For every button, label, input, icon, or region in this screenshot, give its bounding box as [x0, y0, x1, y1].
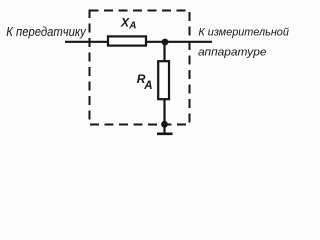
dashed enclosure box: [90, 11, 190, 125]
node (junction dot): [162, 39, 169, 46]
junction dot on box boundary: [161, 121, 168, 128]
wire: node down to Ra: [163, 42, 165, 61]
wire: Ra down to ground: [163, 100, 165, 133]
svg-text:A: A: [128, 21, 136, 32]
svg-text:аппаратуре: аппаратуре: [198, 46, 267, 58]
svg-text:К передатчику: К передатчику: [6, 24, 87, 39]
resistor XA (series element): [108, 36, 146, 45]
resistor RA (shunt element): [158, 61, 169, 99]
wire: input lead from left to Xa: [65, 41, 107, 43]
wire: Xa to output through node: [147, 41, 212, 43]
svg-text:К измерительной: К измерительной: [198, 26, 289, 38]
ground: [157, 133, 173, 136]
svg-text:A: A: [143, 80, 152, 92]
